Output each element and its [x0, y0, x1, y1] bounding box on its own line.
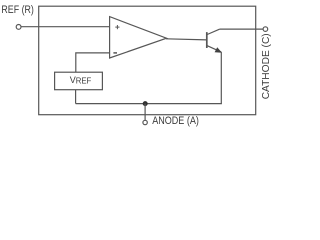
emitter wire down: [220, 52, 222, 104]
svg-text:CATHODE (C): CATHODE (C): [261, 33, 272, 99]
collector wire to cathode: [220, 28, 263, 30]
anode stub wire: [144, 104, 146, 121]
wire op-amp output to base: [166, 39, 207, 40]
minus input mark: [113, 52, 117, 54]
feedback wire minus input to VREF: [76, 53, 110, 72]
plus input mark: [115, 25, 119, 29]
VREF bottom wire: [75, 90, 77, 104]
cathode terminal: [263, 27, 268, 32]
svg-text:ANODE (A): ANODE (A): [152, 115, 199, 127]
emitter diagonal: [207, 46, 221, 52]
op-amp U1: [110, 17, 167, 58]
bottom rail: [76, 103, 222, 105]
REF terminal: [16, 25, 21, 30]
outer box: [39, 6, 256, 115]
transistor Q1 base bar: [206, 32, 208, 48]
VREF box: [55, 72, 103, 90]
svg-text:VREF: VREF: [70, 75, 92, 86]
junction dot: [143, 101, 148, 106]
anode terminal: [143, 120, 147, 124]
emitter arrowhead: [215, 47, 222, 52]
svg-text:REF (R): REF (R): [1, 4, 34, 16]
collector diagonal: [207, 29, 220, 34]
wire REF to + input: [21, 26, 110, 28]
